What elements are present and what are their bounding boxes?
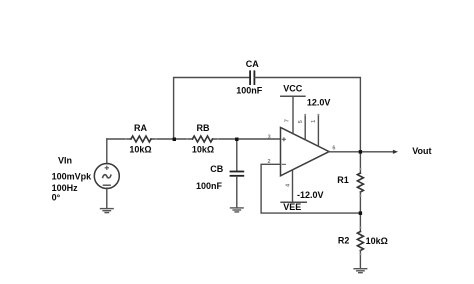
ground (below R2)	[354, 269, 367, 273]
resistor R1	[357, 173, 363, 192]
svg-text:VIn: VIn	[58, 156, 72, 166]
ground (below CB)	[231, 208, 244, 212]
svg-text:4: 4	[286, 183, 292, 187]
capacitor CB	[231, 172, 244, 176]
wire CB to ground	[236, 177, 238, 208]
svg-text:7: 7	[285, 119, 291, 122]
wire feedback top: node A up and across to CA	[174, 78, 250, 140]
svg-text:CA: CA	[246, 59, 259, 69]
wire feedback: pin 2 loop to R1/R2 node	[261, 164, 360, 213]
op-amp pin 5 stub (offset null)	[304, 115, 306, 140]
svg-text:1: 1	[311, 120, 317, 123]
svg-text:100nF: 100nF	[236, 86, 263, 96]
capacitor CA	[250, 71, 254, 84]
pin end dots R2	[359, 227, 361, 256]
svg-text:12.0V: 12.0V	[307, 98, 331, 108]
resistor RA	[131, 136, 151, 142]
svg-text:0°: 0°	[52, 193, 61, 203]
svg-text:RA: RA	[134, 123, 147, 133]
wire main signal: source top to op-amp pin 3	[107, 138, 281, 140]
svg-text:RB: RB	[197, 123, 210, 133]
op-amp U1	[281, 127, 330, 175]
svg-text:10kΩ: 10kΩ	[192, 145, 214, 155]
svg-text:100mVpk: 100mVpk	[52, 172, 93, 182]
VEE power symbol	[281, 201, 306, 203]
AC source VIn	[94, 164, 119, 189]
resistor R2	[357, 232, 363, 251]
svg-text:R1: R1	[337, 175, 349, 185]
svg-text:2: 2	[267, 159, 270, 165]
pin end dots R1	[359, 168, 361, 197]
svg-text:VCC: VCC	[283, 83, 303, 93]
svg-text:6: 6	[332, 145, 335, 151]
svg-text:10kΩ: 10kΩ	[129, 145, 151, 155]
wire source bottom lead	[106, 188, 108, 208]
node junction dot (output-CA-R1)	[359, 150, 362, 154]
wire R1 to node B	[359, 192, 361, 213]
op-amp pin 1 stub (offset null)	[317, 115, 319, 147]
ground (below VIn source)	[101, 209, 114, 213]
svg-text:VEE: VEE	[283, 202, 301, 212]
node junction dot (RB-CB-pin3)	[235, 138, 238, 142]
wire feedback top: CA to output node	[255, 78, 361, 152]
node A junction dot (RA-RB-CA)	[173, 138, 176, 142]
pin end dots offset null	[304, 114, 319, 116]
svg-text:-12.0V: -12.0V	[297, 190, 324, 200]
svg-text:5: 5	[298, 120, 304, 123]
wire node B to R2	[359, 213, 361, 231]
svg-text:100nF: 100nF	[196, 181, 223, 191]
op-amp pin 7 stub (V+)	[292, 96, 294, 134]
pin end dots RB	[186, 138, 218, 140]
wire CB branch vertical	[236, 139, 238, 171]
wire op-amp output to Vout terminal	[329, 151, 394, 153]
svg-text:CB: CB	[210, 164, 223, 174]
svg-text:Vout: Vout	[412, 146, 431, 156]
Vout terminal arrow	[393, 150, 398, 154]
VCC power symbol	[281, 95, 305, 97]
svg-text:3: 3	[268, 134, 271, 140]
op-amp pin 4 stub (V-)	[292, 170, 294, 202]
resistor RB	[193, 136, 213, 142]
wire source vertical	[106, 139, 108, 164]
wire output node down to R1	[359, 152, 361, 173]
pin end dots RA	[125, 138, 157, 140]
svg-text:R2: R2	[338, 236, 350, 246]
node B junction dot (R1-R2-feedback)	[359, 211, 362, 215]
wire R2 to ground	[359, 251, 361, 269]
svg-text:100Hz: 100Hz	[52, 183, 79, 193]
svg-text:10kΩ: 10kΩ	[366, 236, 388, 246]
